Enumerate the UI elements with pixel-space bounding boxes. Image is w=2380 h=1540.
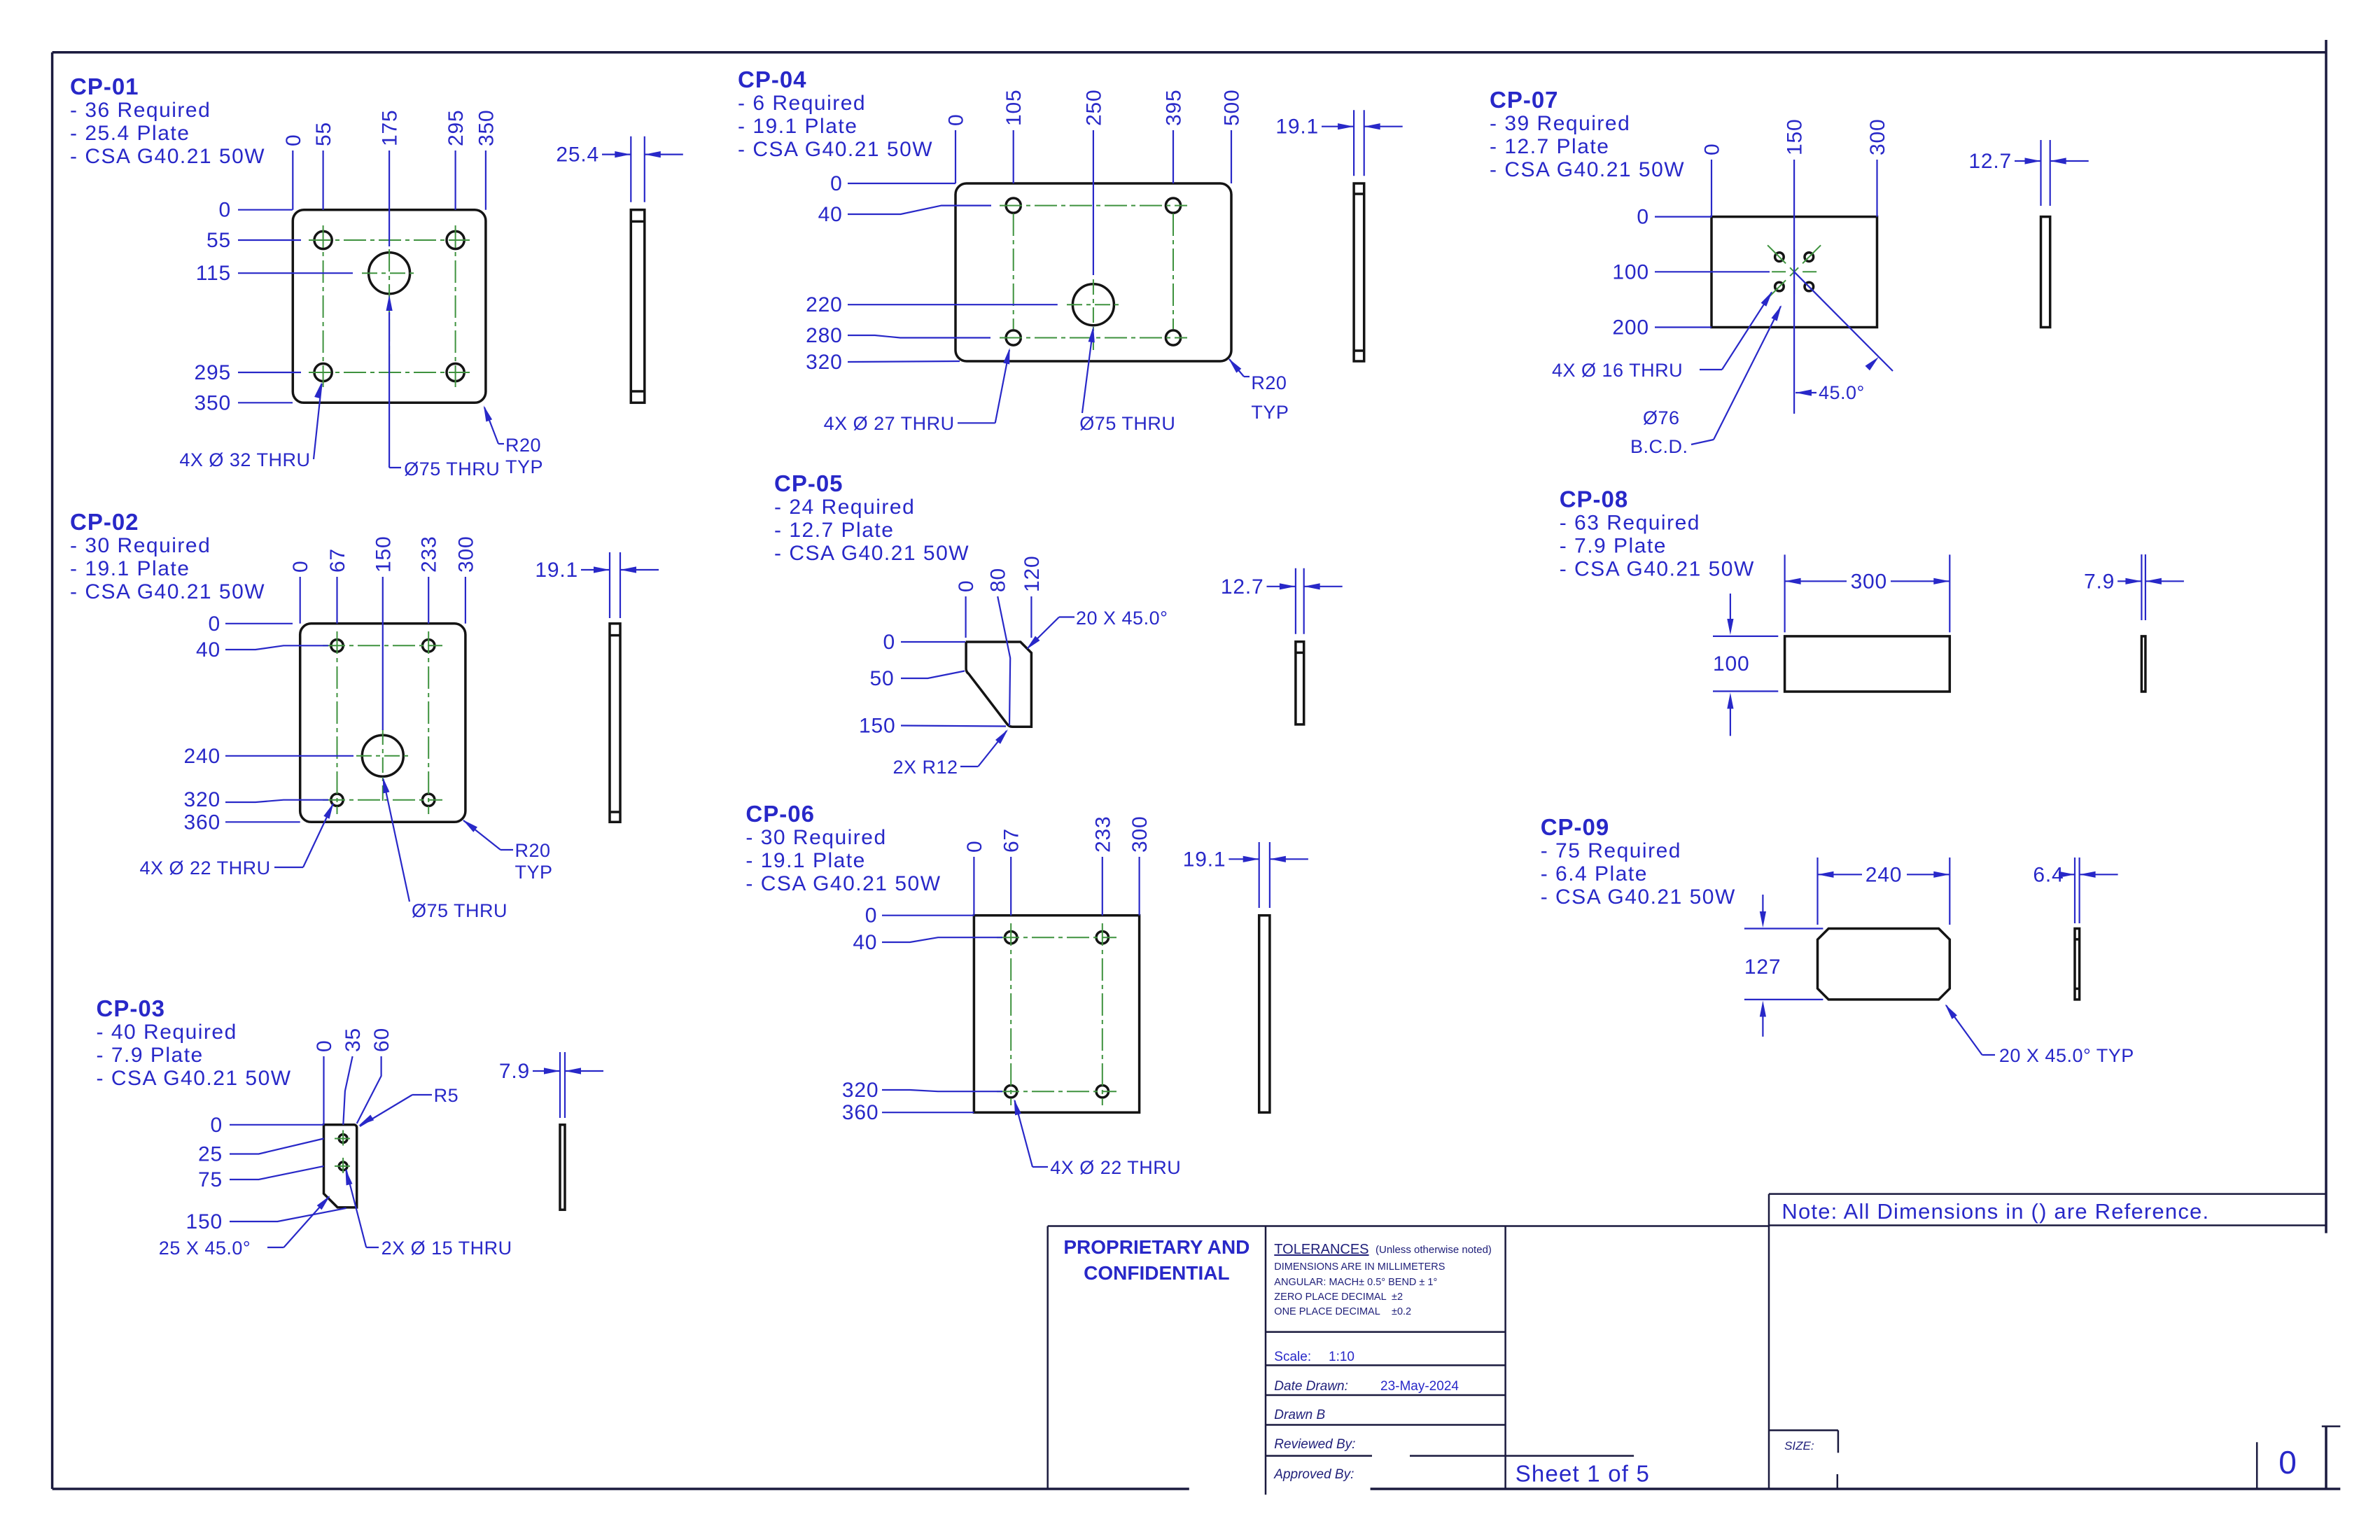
CP-01 bolt hole 3 [314,363,332,381]
CP-01 left ordinate 0 [219,199,293,222]
CP-03 hole 2 [339,1162,347,1170]
svg-text:0: 0 [883,631,896,654]
CP-04 top ordinate 395 [1163,90,1186,183]
CP-06 centerline right column [1102,923,1103,1105]
svg-text:23-May-2024: 23-May-2024 [1380,1379,1459,1394]
svg-text:0: 0 [209,612,221,636]
CP-01 top ordinate 55 [312,122,335,210]
svg-text:Sheet 1 of 5: Sheet 1 of 5 [1515,1461,1650,1487]
CP-02 left ordinate 320 [184,788,328,811]
CP-08 thickness dimension [2084,554,2184,620]
svg-text:105: 105 [1002,90,1025,126]
CP-04 top ordinate 0 [945,114,968,184]
CP-02 centerline left column [337,631,338,814]
svg-text:TOLERANCES: TOLERANCES [1274,1242,1368,1257]
svg-text:- 7.9 Plate: - 7.9 Plate [97,1044,204,1067]
svg-text:- CSA G40.21 50W: - CSA G40.21 50W [70,580,265,603]
CP-04 center hole horizontal centerline [1067,304,1120,305]
CP-03 thickness dimension [499,1052,603,1118]
CP-07 note line 3 [1490,158,1685,181]
CP-09 width dimension 240 [1818,857,1950,925]
svg-text:0: 0 [830,172,843,195]
CP-01 top ordinate 0 [282,134,305,210]
CP-05 gusset outline [966,642,1032,727]
svg-text:- 12.7 Plate: - 12.7 Plate [774,519,894,542]
size cell lower tick [1837,1474,1839,1489]
CP-07 title [1490,87,1559,113]
svg-text:0: 0 [219,199,232,222]
date row [1274,1379,1459,1394]
svg-text:50: 50 [870,667,895,690]
svg-text:295: 295 [195,361,231,384]
svg-text:300: 300 [1851,570,1887,593]
svg-text:0: 0 [955,580,978,593]
CP-06 thickness dimension [1183,842,1308,908]
title block outline top [1048,1225,1769,1227]
CP-01 thickness dimension [556,136,682,202]
reviewed separator left [1266,1455,1372,1457]
svg-text:Note: All Dimensions in () are: Note: All Dimensions in () are Reference… [1781,1199,2209,1224]
svg-text:40: 40 [853,931,877,954]
CP-08 note line 3 [1560,558,1755,581]
svg-text:- 12.7 Plate: - 12.7 Plate [1490,135,1609,158]
CP-04 centerline left column [1013,213,1014,329]
CP-03 top ordinate 35 [342,1028,365,1125]
CP-08 note line 2 [1560,535,1667,558]
CP-05 side view [1296,642,1304,724]
svg-text:60: 60 [370,1028,393,1052]
svg-text:Reviewed By:: Reviewed By: [1274,1437,1355,1452]
CP-06 hole callout [1014,1099,1182,1178]
CP-06 side view [1259,916,1270,1113]
CP-01 top ordinate 175 [379,110,402,246]
svg-text:233: 233 [418,536,441,573]
svg-text:Ø76: Ø76 [1643,407,1680,428]
svg-text:250: 250 [1082,90,1105,126]
svg-text:150: 150 [859,715,895,738]
CP-02 top ordinate 67 [326,548,349,624]
CP-03 chamfer callout [159,1196,330,1259]
CP-04 note line 3 [738,138,933,161]
svg-text:175: 175 [379,110,402,146]
title block divider col3-col4 [1768,1194,1770,1489]
revision cell left line [2256,1442,2258,1489]
svg-text:- 6.4 Plate: - 6.4 Plate [1541,862,1648,885]
svg-text:- 19.1 Plate: - 19.1 Plate [738,115,857,138]
CP-07 bolt circle diagonal centerline 2 [1767,245,1821,298]
CP-07 center cross vertical [1793,249,1795,294]
proprietary text line 1 [1063,1236,1249,1258]
tolerance line 2 [1274,1277,1437,1288]
svg-text:CP-09: CP-09 [1541,814,1610,840]
approved row [1273,1467,1354,1482]
CP-09 note line 1 [1541,839,1681,862]
svg-text:2X R12: 2X R12 [893,757,958,778]
svg-text:25: 25 [198,1143,223,1166]
CP-07 note line 1 [1490,112,1630,135]
CP-05 top ordinate 120 [1021,556,1044,638]
CP-06 plate outline [974,916,1139,1113]
CP-02 hole callout [140,803,334,878]
CP-06 title [745,801,815,827]
CP-02 center hole horizontal centerline [356,755,409,757]
CP-01 centerline right column [455,225,456,387]
CP-01 center hole [369,253,410,294]
CP-07 bolt hole 3 [1775,282,1784,291]
CP-01 left ordinate 295 [195,361,301,384]
CP-05 top ordinate 0 [955,580,978,638]
tolerances heading [1274,1242,1492,1257]
CP-06 centerline top row [997,937,1116,938]
CP-02 top ordinate 0 [289,561,312,624]
sheet border bottom left segment [52,1487,1189,1490]
CP-03 hole callout [346,1169,512,1259]
CP-04 centerline bottom row [1000,337,1187,339]
svg-text:0: 0 [865,904,878,927]
CP-01 note line 2 [70,122,190,145]
CP-01 left ordinate 350 [195,391,293,414]
svg-text:12.7: 12.7 [1968,150,2012,173]
svg-text:- 25.4 Plate: - 25.4 Plate [70,122,190,145]
CP-04 centerline right column [1172,213,1174,329]
svg-text:25.4: 25.4 [556,143,599,167]
svg-text:- 75 Required: - 75 Required [1541,839,1681,862]
CP-06 bolt hole 2 [1096,932,1108,944]
CP-04 left ordinate 0 [830,172,955,195]
scale row [1274,1350,1354,1364]
svg-text:150: 150 [186,1210,223,1233]
svg-text:75: 75 [198,1168,223,1191]
CP-03 top ordinate 0 [313,1040,336,1125]
CP-06 left ordinate 0 [865,904,974,927]
svg-text:- CSA G40.21 50W: - CSA G40.21 50W [745,872,941,895]
CP-01 centerline left column [323,225,324,387]
CP-01 hole callout [179,382,321,470]
CP-01 bolt hole 1 [314,231,332,248]
CP-02 side view [610,624,620,822]
CP-06 bolt hole 4 [1096,1086,1108,1098]
svg-text:127: 127 [1744,955,1781,979]
svg-text:ZERO PLACE DECIMAL: ZERO PLACE DECIMAL [1274,1291,1386,1303]
svg-text:395: 395 [1163,90,1186,126]
CP-08 height dimension 100 [1713,594,1778,736]
svg-text:35: 35 [342,1028,365,1052]
CP-02 center hole [362,735,403,776]
title block divider col2-col3 [1504,1226,1506,1490]
CP-06 left ordinate 320 [842,1079,1002,1102]
svg-text:TYP: TYP [505,456,543,477]
CP-04 corner radius callout [1228,358,1289,423]
CP-05 thickness dimension [1221,568,1343,634]
tolerance line 1 [1274,1261,1445,1273]
CP-04 centerline top row [1000,205,1187,206]
CP-02 thickness dimension [535,552,659,618]
CP-07 bolt hole 2 [1805,253,1814,262]
CP-03 note line 3 [97,1067,292,1090]
CP-06 bolt hole 1 [1005,932,1017,944]
svg-text:0: 0 [2278,1444,2297,1480]
CP-02 center hole callout [383,777,507,921]
svg-text:Ø75 THRU: Ø75 THRU [404,458,500,479]
CP-03 left ordinate 150 [186,1208,346,1233]
CP-06 centerline left column [1010,923,1011,1105]
svg-text:- 19.1 Plate: - 19.1 Plate [70,557,190,580]
sheet border top [52,51,2326,54]
revision number 0 [2278,1444,2297,1480]
sheet border left [51,52,54,1489]
svg-text:350: 350 [195,391,231,414]
svg-text:320: 320 [842,1079,878,1102]
svg-text:- CSA G40.21 50W: - CSA G40.21 50W [70,145,265,168]
CP-02 top ordinate 150 [372,536,395,730]
CP-03 hole 1 [339,1135,347,1143]
svg-text:Approved By:: Approved By: [1273,1467,1354,1482]
CP-01 centerline top row [309,239,470,241]
svg-text:4X Ø 22 THRU: 4X Ø 22 THRU [1050,1157,1181,1178]
title block divider col1-col2 [1265,1226,1267,1495]
svg-text:0: 0 [945,114,968,127]
svg-text:DIMENSIONS ARE IN MILLIMETERS: DIMENSIONS ARE IN MILLIMETERS [1274,1261,1445,1273]
CP-04 left ordinate 220 [806,293,1058,316]
CP-01 center hole callout [386,295,500,479]
svg-text:Date Drawn:: Date Drawn: [1274,1379,1348,1394]
CP-04 thickness dimension [1275,110,1402,176]
CP-02 bolt hole 3 [331,794,343,806]
svg-text:240: 240 [1865,863,1902,886]
CP-08 width dimension 300 [1785,554,1950,632]
svg-text:67: 67 [1000,828,1023,853]
svg-text:295: 295 [444,110,468,146]
svg-text:100: 100 [1612,260,1648,283]
svg-text:CP-06: CP-06 [745,801,815,827]
CP-02 top ordinate 300 [454,536,477,624]
svg-text:- CSA G40.21 50W: - CSA G40.21 50W [774,542,969,565]
CP-01 left ordinate 115 [196,262,353,285]
svg-text:Ø75 THRU: Ø75 THRU [1079,413,1175,434]
svg-text:19.1: 19.1 [535,559,578,582]
CP-02 left ordinate 360 [184,811,300,834]
CP-07 angle dimension 45 [1794,272,1893,403]
svg-text:(Unless otherwise noted): (Unless otherwise noted) [1375,1244,1492,1256]
CP-01 bolt hole 2 [447,231,464,248]
svg-text:12.7: 12.7 [1221,575,1264,598]
CP-06 note line 1 [745,826,886,849]
svg-text:4X Ø 32 THRU: 4X Ø 32 THRU [179,449,310,470]
CP-01 side view [631,210,645,403]
CP-02 centerline top row [323,645,442,646]
CP-01 bolt hole 4 [447,363,464,381]
CP-03 note line 1 [97,1021,237,1044]
svg-text:500: 500 [1221,90,1244,126]
CP-07 note line 2 [1490,135,1609,158]
CP-07 plate outline [1711,217,1877,328]
tolerance line 4 [1274,1306,1411,1317]
CP-08 title [1560,486,1629,512]
CP-03 left ordinate 0 [211,1114,324,1137]
size cell line [1769,1429,1838,1431]
svg-text:Scale:: Scale: [1274,1350,1311,1364]
svg-text:0: 0 [282,134,305,147]
svg-text:80: 80 [987,568,1010,592]
svg-text:±0.2: ±0.2 [1392,1306,1411,1317]
svg-text:- 30 Required: - 30 Required [70,534,211,557]
svg-text:TYP: TYP [1251,402,1289,423]
CP-02 centerline mid column [382,729,384,805]
svg-text:100: 100 [1713,652,1749,675]
CP-07 hole callout [1552,291,1772,381]
svg-text:360: 360 [184,811,220,834]
svg-text:360: 360 [842,1101,878,1124]
CP-02 plate outline [300,624,465,822]
svg-text:4X Ø 27 THRU: 4X Ø 27 THRU [824,413,955,434]
svg-text:- CSA G40.21 50W: - CSA G40.21 50W [1490,158,1685,181]
CP-06 centerline bottom row [997,1091,1116,1092]
CP-01 left ordinate 55 [206,229,301,252]
svg-text:TYP: TYP [515,862,553,883]
CP-06 left ordinate 40 [853,931,1002,954]
svg-text:SIZE:: SIZE: [1784,1439,1814,1452]
svg-text:- CSA G40.21 50W: - CSA G40.21 50W [1541,885,1736,909]
svg-text:150: 150 [372,536,395,573]
CP-01 top ordinate 350 [475,110,498,210]
svg-text:±2: ±2 [1392,1291,1403,1303]
svg-text:19.1: 19.1 [1275,115,1319,139]
svg-text:40: 40 [196,638,220,661]
sheet cell top line [1410,1455,1634,1457]
svg-text:6.4: 6.4 [2033,863,2064,886]
svg-text:- 36 Required: - 36 Required [70,99,211,122]
CP-02 bolt hole 1 [331,640,343,652]
svg-text:CONFIDENTIAL: CONFIDENTIAL [1084,1262,1229,1284]
svg-text:- 7.9 Plate: - 7.9 Plate [1560,535,1667,558]
svg-text:PROPRIETARY AND: PROPRIETARY AND [1063,1236,1249,1258]
svg-text:280: 280 [806,324,842,347]
svg-text:240: 240 [184,745,220,768]
drawn separator [1266,1424,1506,1426]
svg-text:233: 233 [1091,816,1114,853]
svg-text:0: 0 [211,1114,223,1137]
svg-text:200: 200 [1612,316,1648,339]
svg-text:220: 220 [806,293,842,316]
CP-02 bolt hole 2 [423,640,435,652]
CP-02 left ordinate 40 [196,638,328,661]
reviewed row [1274,1437,1355,1452]
size label [1784,1439,1814,1452]
svg-text:55: 55 [206,229,231,252]
CP-07 left ordinate 200 [1612,316,1711,339]
CP-04 plate outline [955,183,1231,361]
svg-text:350: 350 [475,110,498,146]
CP-09 height dimension 127 [1744,895,1823,1037]
CP-09 note line 3 [1541,885,1736,909]
svg-text:67: 67 [326,548,349,573]
svg-text:R20: R20 [515,840,551,861]
CP-04 left ordinate 280 [806,324,990,347]
svg-text:ONE PLACE DECIMAL: ONE PLACE DECIMAL [1274,1306,1380,1317]
svg-text:0: 0 [963,841,986,853]
svg-text:45.0°: 45.0° [1819,382,1865,403]
CP-09 note line 2 [1541,862,1648,885]
CP-01 corner radius callout [484,405,543,477]
sheet border bottom right segment [1371,1487,2341,1490]
CP-02 left ordinate 0 [209,612,293,636]
CP-05 note line 2 [774,519,894,542]
CP-06 bolt hole 3 [1005,1086,1017,1098]
svg-text:300: 300 [1866,119,1889,155]
svg-text:- 24 Required: - 24 Required [774,496,915,519]
CP-04 bolt hole 2 [1165,198,1180,213]
CP-09 title [1541,814,1610,840]
CP-02 note line 2 [70,557,190,580]
svg-text:300: 300 [1128,816,1151,853]
svg-text:R5: R5 [434,1085,459,1106]
date separator [1266,1394,1506,1396]
svg-text:CP-03: CP-03 [97,995,166,1021]
svg-text:0: 0 [1701,143,1724,156]
CP-04 bolt hole 1 [1006,198,1021,213]
CP-04 note line 1 [738,92,866,115]
CP-06 top ordinate 0 [963,841,986,916]
CP-04 centerline mid column [1093,279,1094,350]
CP-05 title [774,470,843,496]
sheet border right lower [2325,1427,2327,1489]
svg-text:25 X 45.0°: 25 X 45.0° [159,1238,251,1259]
svg-text:- CSA G40.21 50W: - CSA G40.21 50W [1560,558,1755,581]
tolerance line 3 [1274,1291,1403,1303]
svg-text:40: 40 [818,203,843,226]
svg-text:115: 115 [196,262,231,285]
CP-03 note line 2 [97,1044,204,1067]
CP-01 note line 3 [70,145,265,168]
CP-06 note line 2 [745,849,865,872]
CP-06 top ordinate 300 [1128,816,1151,916]
CP-03 hole 1 centerlines [335,1130,351,1147]
CP-06 note line 3 [745,872,941,895]
svg-text:CP-08: CP-08 [1560,486,1629,512]
svg-text:CP-01: CP-01 [70,73,139,99]
svg-text:300: 300 [454,536,477,573]
CP-04 title [738,66,807,92]
CP-09 side view [2075,929,2080,1000]
CP-07 left ordinate 100 [1612,260,1770,283]
CP-03 title [97,995,166,1021]
svg-text:4X Ø 22 THRU: 4X Ø 22 THRU [140,857,271,878]
CP-07 top ordinate 0 [1701,143,1724,217]
CP-07 bolt hole 4 [1805,282,1814,291]
svg-text:7.9: 7.9 [2084,570,2115,593]
CP-07 side view [2041,217,2050,328]
CP-03 left ordinate 25 [198,1139,323,1166]
CP-09 plate outline [1818,929,1950,1000]
CP-09 thickness dimension [2033,857,2117,923]
svg-text:Drawn B: Drawn B [1274,1408,1325,1422]
CP-04 bolt hole 4 [1165,330,1180,345]
CP-02 note line 3 [70,580,265,603]
svg-text:ANGULAR: MACH± 0.5° BEND ± 1°: ANGULAR: MACH± 0.5° BEND ± 1° [1274,1277,1437,1288]
CP-04 hole callout [824,348,1010,434]
svg-text:- 30 Required: - 30 Required [745,826,886,849]
CP-05 note line 1 [774,496,915,519]
CP-03 left ordinate 75 [198,1166,323,1191]
CP-05 fillet callout 2X R12 [893,729,1009,778]
svg-text:0: 0 [289,561,312,573]
CP-01 center hole horizontal centerline [362,272,416,274]
svg-text:0: 0 [313,1040,336,1053]
CP-02 title [70,509,139,535]
CP-07 left ordinate 0 [1637,206,1711,229]
CP-04 top ordinate 250 [1082,90,1105,275]
svg-text:- 6 Required: - 6 Required [738,92,866,115]
